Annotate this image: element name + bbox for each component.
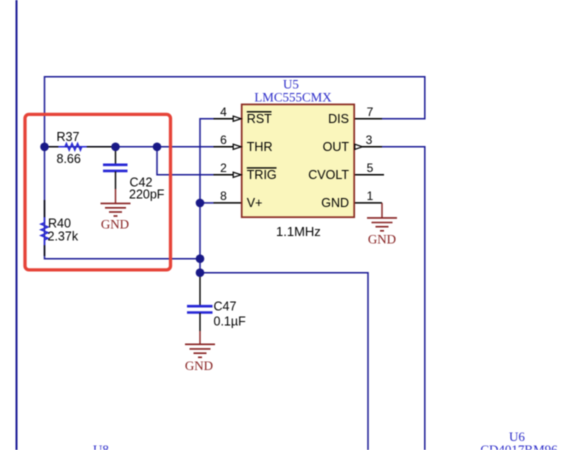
svg-text:6: 6 — [220, 133, 227, 147]
capacitor C47 — [187, 273, 246, 331]
svg-text:RST: RST — [247, 112, 272, 126]
svg-text:3: 3 — [366, 133, 373, 147]
wire: V+ pin stub — [214, 202, 242, 204]
svg-text:4: 4 — [220, 105, 227, 119]
node C (THR / TRIG tap) — [153, 143, 162, 152]
svg-text:1.1MHz: 1.1MHz — [276, 224, 321, 239]
wire: GND pin stub — [354, 202, 382, 204]
resistor R40 — [41, 200, 79, 256]
svg-text:7: 7 — [367, 105, 374, 119]
pin 6 input arrow — [233, 144, 241, 149]
svg-text:V+: V+ — [247, 196, 263, 210]
node D (V+ pin tap) — [196, 199, 205, 208]
ground at pin 1 of U5 — [367, 203, 397, 247]
svg-text:5: 5 — [367, 161, 374, 175]
wire: THR pin stub — [214, 146, 242, 148]
wire: V+ rail vertical (RST pin down to C47 tee) — [200, 119, 214, 273]
svg-text:GND: GND — [185, 358, 213, 373]
node A (R37 left / DIS net) — [40, 143, 49, 152]
svg-text:220pF: 220pF — [129, 188, 165, 202]
svg-text:OUT: OUT — [323, 140, 350, 154]
node F (C47 / branch tee) — [196, 268, 205, 277]
svg-text:LMC555CMX: LMC555CMX — [254, 90, 332, 105]
wire: OUT pin stub — [354, 146, 382, 148]
wire: R40 branch (left node down through R40 to rail) — [45, 147, 201, 259]
wire: CVOLT pin stub (unconnected) — [354, 174, 384, 176]
capacitor C42 — [103, 147, 165, 202]
wire: branch to U6 (down right) — [200, 273, 368, 450]
node E (R40 bottom / rail) — [196, 254, 205, 263]
resistor R37 — [47, 130, 114, 166]
svg-text:R40: R40 — [48, 216, 71, 230]
page border (left edge of sheet) — [16, 0, 18, 450]
wire: TRIG pin stub — [214, 174, 242, 176]
svg-text:8.66: 8.66 — [57, 152, 81, 166]
svg-text:CVOLT: CVOLT — [308, 168, 349, 182]
svg-text:THR: THR — [247, 140, 273, 154]
node B (R37 right / C42 top) — [111, 143, 120, 152]
svg-text:C47: C47 — [214, 300, 237, 314]
wire: TRIG jog from THR node — [157, 147, 214, 175]
ground at C47 — [185, 331, 215, 373]
svg-text:8: 8 — [220, 189, 227, 203]
svg-text:GND: GND — [368, 232, 396, 247]
svg-text:2: 2 — [220, 161, 227, 175]
wire: DIS pin stub — [354, 118, 382, 120]
svg-text:U8: U8 — [93, 442, 109, 450]
svg-text:1: 1 — [367, 189, 374, 203]
svg-text:GND: GND — [101, 217, 129, 232]
wire: DIS net loop (pin7 up over top to R37 left node) — [45, 77, 425, 147]
svg-text:0.1µF: 0.1µF — [214, 314, 247, 328]
ground at C42 — [101, 189, 131, 232]
wire: RST pin stub — [214, 118, 242, 120]
wire: OUT net (pin3 right and down to U6) — [382, 147, 425, 450]
wire: THR net horizontal (R37 node row) — [45, 146, 214, 148]
svg-text:R37: R37 — [57, 130, 80, 144]
svg-text:CD4017BM96: CD4017BM96 — [480, 442, 558, 450]
svg-text:DIS: DIS — [328, 112, 349, 126]
pin 3 output arrow — [355, 144, 363, 149]
IC U5 body — [242, 104, 355, 217]
svg-text:TRIG: TRIG — [247, 168, 277, 182]
pin 4 input arrow — [233, 116, 241, 121]
wire: V+ pin stub connection — [200, 202, 214, 204]
highlight box (red) — [25, 114, 171, 270]
pin 2 input arrow — [233, 172, 241, 177]
svg-text:GND: GND — [321, 196, 349, 210]
svg-text:2.37k: 2.37k — [48, 230, 79, 244]
